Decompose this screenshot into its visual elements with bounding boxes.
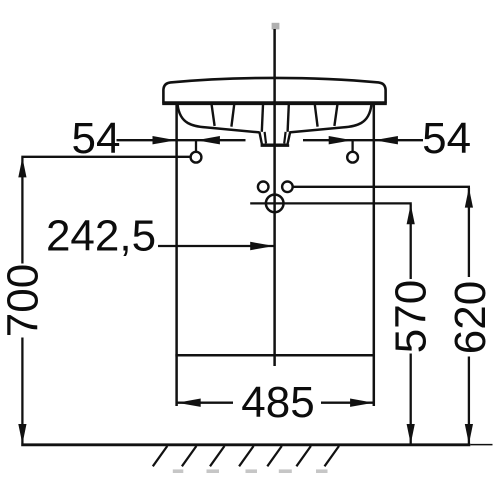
bowl facet line L1	[212, 105, 215, 126]
gray hatch remnant 4	[279, 469, 292, 473]
dim 570 vertical line lower	[410, 354, 412, 444]
dim 700 up arrow	[18, 157, 26, 177]
gray hatch remnant 3	[246, 469, 258, 473]
svg-text:620: 620	[446, 281, 495, 354]
gray hatch remnant 1	[173, 469, 184, 473]
dim 485 right arrow	[350, 399, 374, 407]
dim 620 vertical line upper	[468, 188, 470, 277]
dim 485 left arrow	[177, 399, 201, 407]
dim 242,5 line	[158, 245, 274, 247]
rim bottom line	[162, 103, 387, 106]
floor hatch 7	[325, 446, 340, 466]
dim 242,5 arrow to centerline	[250, 242, 274, 250]
mounting hole left circle	[191, 152, 202, 163]
dim 54 left line	[117, 139, 246, 141]
svg-text:54: 54	[422, 114, 471, 163]
svg-text:54: 54	[72, 114, 121, 163]
bowl facet line R1	[315, 105, 318, 127]
svg-text:570: 570	[387, 280, 436, 353]
leader line to 620 dim	[293, 186, 470, 188]
bowl outline right	[289, 105, 371, 132]
gray cap at top of centerline	[272, 23, 280, 30]
mounting hole right circle	[347, 152, 358, 163]
dim 54 right arrow to hole line	[329, 136, 353, 144]
drain spigot outer	[259, 132, 290, 145]
dim 700 down arrow	[18, 424, 26, 444]
centerline	[273, 29, 276, 366]
dim 570 up arrow	[407, 204, 415, 224]
dim 54 right arrow to cabinet edge	[374, 136, 398, 144]
dim 700 vertical line lower	[21, 338, 23, 444]
cabinet right edge (extends to 485 extension)	[373, 104, 376, 406]
dim 485 line right segment	[321, 402, 374, 404]
floor hatch 2	[182, 446, 197, 466]
floor line	[21, 443, 470, 446]
dim 620 vertical line lower	[468, 357, 470, 444]
drain spigot bottom	[261, 144, 290, 147]
dim 620 down arrow	[465, 424, 473, 444]
dim 54 left arrow to hole line	[196, 136, 220, 144]
leader line to 570 dim	[250, 202, 412, 204]
dim 54 left arrow to cabinet edge	[153, 136, 177, 144]
bowl facet line R2	[334, 105, 337, 126]
dim 54 right line	[303, 139, 423, 141]
svg-text:485: 485	[241, 378, 314, 427]
leader line to 700 dim	[21, 156, 190, 158]
bowl outline left	[178, 105, 260, 132]
dim 700 vertical line upper	[21, 158, 23, 264]
floor line thin extension	[470, 444, 492, 446]
dim 620 up arrow	[465, 188, 473, 208]
cabinet bottom	[175, 354, 375, 357]
drain spigot inner right	[284, 132, 285, 144]
bowl facet line L2	[231, 105, 234, 127]
floor hatch 1	[153, 446, 168, 466]
floor hatch 4	[239, 446, 254, 466]
faucet hole circle left	[258, 182, 269, 193]
floor hatch 3	[210, 446, 225, 466]
svg-text:700: 700	[0, 264, 47, 337]
faucet hole circle right	[282, 182, 293, 193]
washbasin rim	[163, 78, 385, 103]
mounting hole left drop line	[195, 140, 197, 151]
mounting hole right drop line	[351, 140, 353, 151]
cabinet left edge (extends to 485 extension)	[175, 104, 178, 406]
svg-text:242,5: 242,5	[46, 212, 156, 261]
floor hatch 5	[267, 446, 282, 466]
drain spigot inner left	[265, 132, 266, 144]
dim 485 line left segment	[177, 402, 233, 404]
drain crosshair circle	[266, 195, 284, 213]
gray hatch remnant 2	[207, 469, 220, 473]
dim 570 vertical line upper	[410, 204, 412, 279]
drain boss left side	[262, 105, 263, 132]
gray hatch remnant 5	[316, 469, 328, 473]
floor hatch 6	[296, 446, 311, 466]
dim 570 down arrow	[407, 424, 415, 444]
drain boss right side	[288, 105, 289, 132]
